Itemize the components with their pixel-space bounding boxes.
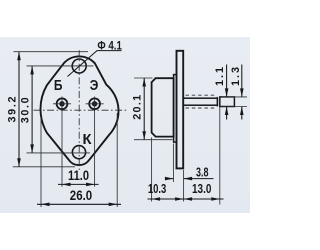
pin B (left lead) (57, 98, 68, 109)
dimension text 1.1 (214, 67, 226, 86)
dimension 20.1 line (142, 78, 146, 140)
dimension 26.0 line (37, 203, 121, 207)
extension line 20.1 bottom (134, 139, 173, 141)
svg-text:Б: Б (54, 78, 63, 94)
leader shelf under diameter text (97, 50, 122, 52)
dimension 1.1 lines (225, 65, 229, 120)
dimension 11.0 line (58, 183, 99, 187)
extension line top (39.2) (14, 51, 89, 53)
svg-text:Ф 4.1: Ф 4.1 (97, 40, 122, 52)
package body outline (front view, TO-3 flange) (41, 56, 119, 165)
svg-text:К: К (83, 132, 92, 148)
mounting flange (side view) (177, 51, 184, 169)
svg-text:20.1: 20.1 (131, 95, 143, 120)
pin hidden envelope bottom (dashed) (186, 107, 218, 109)
svg-text:39.2: 39.2 (6, 97, 18, 123)
svg-text:3.8: 3.8 (196, 164, 209, 179)
extension line 3.8 right / flange right (183, 170, 185, 202)
pin E (right lead) (89, 98, 100, 109)
dimension 3.8 arrows (165, 177, 214, 181)
extension line 20.1 top (134, 77, 153, 79)
svg-text:1.1: 1.1 (214, 67, 226, 86)
extension line pin top (222, 96, 248, 98)
top hole horizontal crosshair / 30.0 extension line (27, 65, 94, 67)
dimension text 10.3 (148, 181, 167, 196)
svg-text:11.0: 11.0 (68, 168, 89, 183)
light blue-gray drawing panel (0, 37, 250, 213)
dimension text 13.0 (192, 181, 211, 196)
extension line 3.8 left (rim) (172, 144, 174, 183)
dimension 30.0 line (30, 66, 34, 153)
extension line 13.0 right (pin step) (219, 107, 221, 205)
horizontal centerline (front view) (34, 109, 129, 111)
svg-text:30.0: 30.0 (20, 97, 32, 123)
pin E horizontal crosshair (86, 103, 104, 105)
vertical centerline (front view) (78, 50, 80, 170)
extension line pin bottom (222, 106, 248, 108)
svg-text:26.0: 26.0 (70, 188, 92, 203)
pin B horizontal crosshair (53, 103, 71, 105)
pin hidden envelope top (dashed) (186, 94, 218, 96)
dimension text 20.1 (131, 95, 143, 120)
dimension 1.3 lines (240, 65, 244, 120)
dimension text 39.2 (6, 97, 18, 123)
extension line 10.3 left (can) (151, 138, 153, 202)
dimension 39.2 line (17, 52, 21, 167)
svg-text:10.3: 10.3 (148, 181, 167, 196)
pin tip thicker part (220, 97, 235, 107)
can body (side view) (152, 78, 174, 136)
pin E vertical crosshair / 11.0 extension line (94, 97, 96, 187)
extension line 26.0 left (40, 117, 42, 207)
label diameter 4.1 (97, 40, 122, 52)
top mounting hole (72, 59, 86, 73)
label K (collector) (83, 132, 92, 148)
pin lead thin part (side view) (183, 98, 217, 105)
extension line bottom (39.2) (13, 166, 75, 168)
svg-text:13.0: 13.0 (192, 181, 211, 196)
dimension text 3.8 (196, 164, 209, 179)
pin B vertical crosshair / 11.0 extension line (61, 97, 63, 187)
dimension text 11.0 (68, 168, 89, 183)
svg-text:Э: Э (90, 78, 99, 94)
label E (emitter) (90, 78, 99, 94)
dimension text 30.0 (20, 97, 32, 123)
pin step tick left (216, 97, 218, 107)
bottom mounting hole (72, 146, 85, 159)
dimension text 1.3 (230, 67, 242, 86)
label B (base) (54, 78, 63, 94)
svg-text:1.3: 1.3 (230, 67, 242, 86)
can weld rim (174, 75, 177, 143)
dimension text 26.0 (70, 188, 92, 203)
leader line for hole diameter (68, 51, 98, 77)
bottom hole horizontal crosshair / 30.0 extension line (27, 152, 91, 154)
dimension 10.3/13.0 line (148, 197, 224, 201)
extension line 26.0 right (116, 113, 118, 207)
